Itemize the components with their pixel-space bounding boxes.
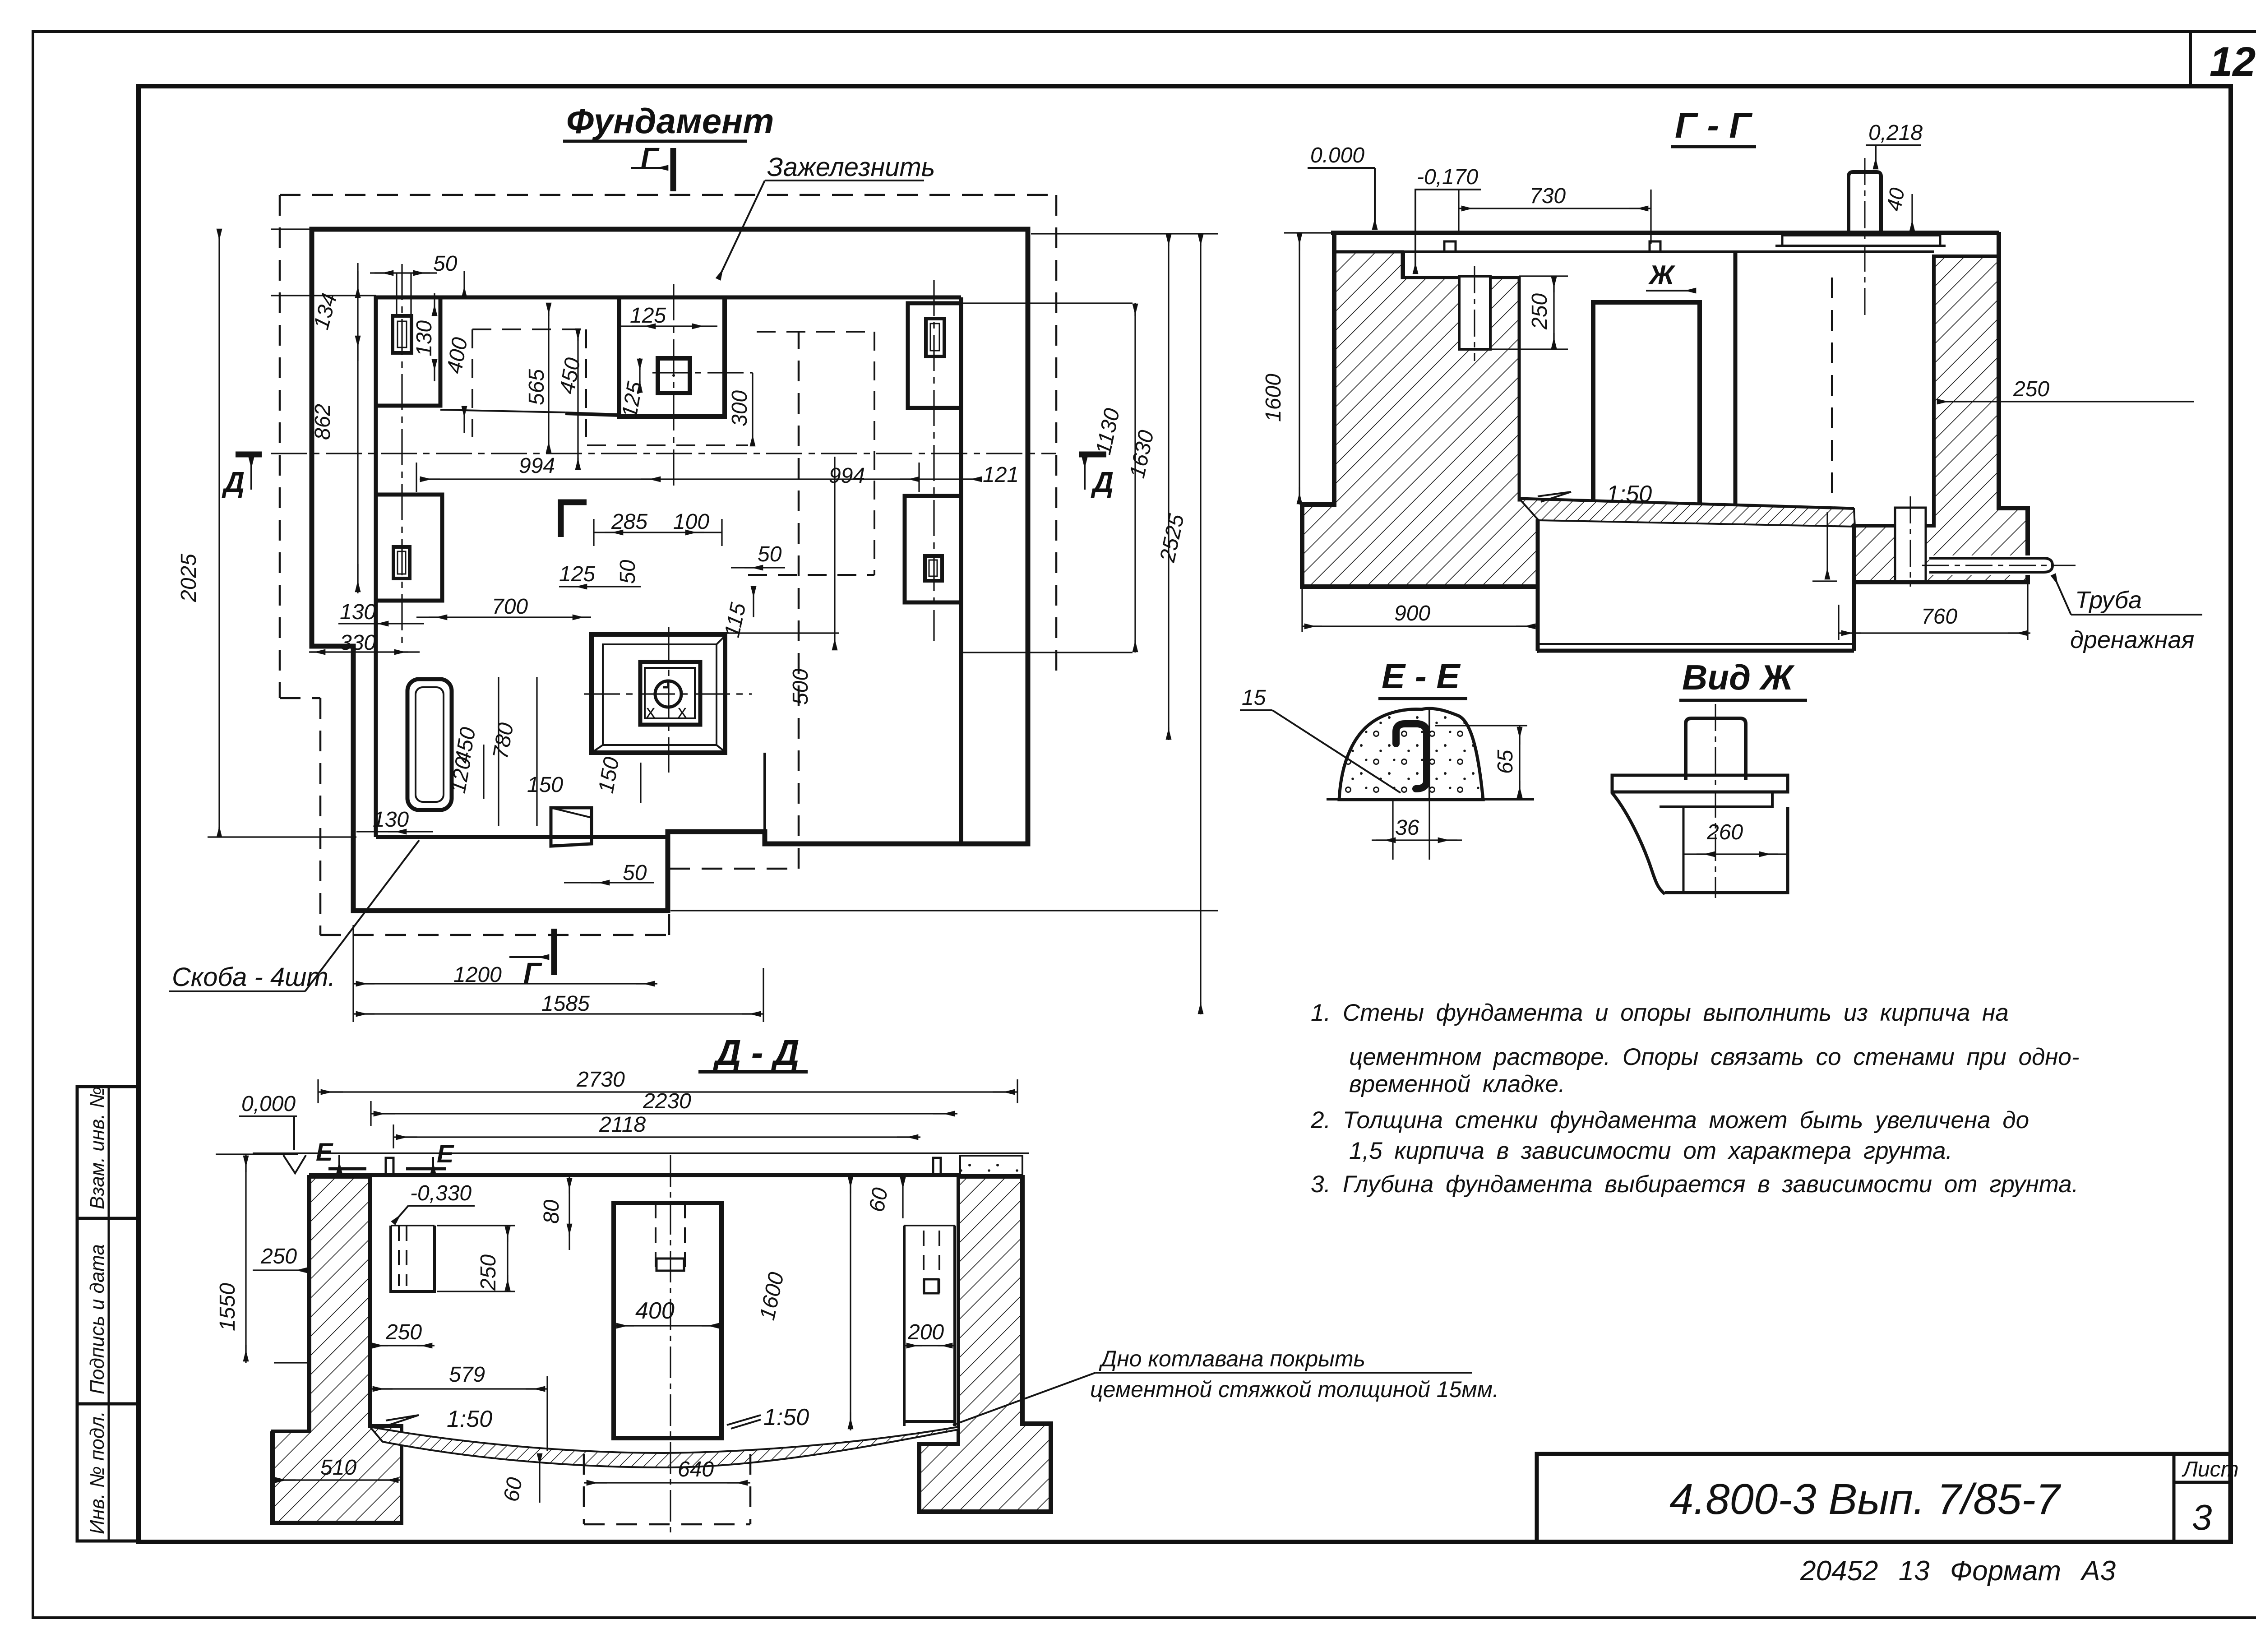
svg-text:-0,330: -0,330 xyxy=(410,1181,472,1205)
svg-text:x: x xyxy=(678,702,687,722)
svg-text:125: 125 xyxy=(559,562,595,586)
left margin stamp boxes xyxy=(77,1087,139,1541)
Д section marks xyxy=(222,454,1114,498)
svg-text:565: 565 xyxy=(525,369,549,405)
label Труба дренажная xyxy=(2070,587,2194,653)
pit floor curve with screed xyxy=(370,1427,958,1467)
slope mark xyxy=(1538,492,1571,502)
svg-text:579: 579 xyxy=(449,1363,485,1387)
svg-text:50: 50 xyxy=(616,560,640,584)
svg-text:125: 125 xyxy=(618,380,647,420)
label 1:50 xyxy=(1606,481,1652,507)
svg-text:250: 250 xyxy=(1528,293,1552,330)
dashed pit below xyxy=(584,1454,750,1524)
svg-text:121: 121 xyxy=(983,463,1019,487)
axis lines dash-dot xyxy=(271,264,1056,773)
svg-text:2118: 2118 xyxy=(599,1113,646,1137)
right wall hatched with footing xyxy=(919,1177,1051,1512)
svg-text:150: 150 xyxy=(594,755,624,795)
right side vertical dims xyxy=(670,234,1218,1014)
svg-text:700: 700 xyxy=(492,595,528,619)
ledge line -0.170 xyxy=(1402,252,1405,278)
svg-text:65: 65 xyxy=(1493,750,1517,774)
svg-text:400: 400 xyxy=(443,336,472,375)
left wall outer edge xyxy=(1302,232,1538,587)
chamber partition xyxy=(1734,252,1738,506)
svg-text:50: 50 xyxy=(433,252,458,276)
dim 250 right wall xyxy=(2013,377,2049,401)
left wall with footing hatched xyxy=(273,1177,402,1523)
Е cut marks xyxy=(316,1138,454,1168)
svg-text:500: 500 xyxy=(789,669,813,705)
dim 400 xyxy=(635,1298,675,1324)
dim 60 right xyxy=(865,1186,893,1214)
right wall and footing hatched xyxy=(1854,256,2028,582)
svg-text:900: 900 xyxy=(1394,602,1430,625)
dim 900 xyxy=(1394,602,1430,625)
svg-text:Е - Е: Е - Е xyxy=(1382,656,1461,696)
svg-text:-0,170: -0,170 xyxy=(1417,165,1478,189)
wall inner edges xyxy=(376,296,961,300)
pier top-middle xyxy=(619,297,725,416)
svg-text:4.800-3 Вып. 7/85-7: 4.800-3 Вып. 7/85-7 xyxy=(1669,1475,2062,1523)
left wall mass hatched xyxy=(1302,252,1538,587)
svg-text:125: 125 xyxy=(630,304,666,328)
anchor tabs on surface xyxy=(1444,241,1456,252)
section mark Г top xyxy=(641,142,660,174)
svg-text:Фундамент: Фундамент xyxy=(566,101,774,141)
svg-text:994: 994 xyxy=(519,454,555,478)
channel profile xyxy=(1396,724,1427,789)
svg-text:дренажная: дренажная xyxy=(2070,626,2194,653)
dim 1550 xyxy=(216,1283,240,1331)
svg-text:12: 12 xyxy=(2210,39,2256,85)
svg-text:Г: Г xyxy=(641,142,660,174)
svg-text:Труба: Труба xyxy=(2075,587,2142,614)
svg-text:1:50: 1:50 xyxy=(763,1404,809,1430)
trench edge below support xyxy=(763,753,766,832)
svg-text:36: 36 xyxy=(1395,816,1419,840)
label 15 xyxy=(1242,686,1266,710)
dim 730 xyxy=(1530,184,1566,208)
Г section mark bottom xyxy=(509,929,554,989)
niche bottom edge in top wall xyxy=(440,410,565,412)
dim 250 left leader xyxy=(260,1245,297,1268)
excavation pit dashed outline xyxy=(280,195,1056,935)
middle deep pit xyxy=(1536,519,1540,651)
svg-text:Г: Г xyxy=(523,957,542,989)
dim 200 xyxy=(907,1320,944,1344)
svg-text:1585: 1585 xyxy=(541,992,590,1016)
svg-text:3. Глубина фундамента выбир: 3. Глубина фундамента выбирается в завис… xyxy=(1311,1171,2079,1198)
svg-text:130: 130 xyxy=(412,320,436,356)
svg-text:Вид Ж: Вид Ж xyxy=(1682,657,1795,697)
label -0,170 xyxy=(1417,165,1478,189)
svg-text:300: 300 xyxy=(728,390,752,426)
misc dim lines center bottom xyxy=(353,457,835,1022)
svg-text:250: 250 xyxy=(2013,377,2049,401)
svg-text:2730: 2730 xyxy=(576,1068,625,1092)
dim 760 xyxy=(1921,605,1957,629)
svg-text:130: 130 xyxy=(373,808,409,832)
dim 250 pocket xyxy=(1528,293,1552,330)
svg-text:1550: 1550 xyxy=(216,1283,240,1331)
Г jog bracket mid xyxy=(561,502,587,537)
label -0,330 xyxy=(410,1181,472,1205)
base line xyxy=(1327,798,1534,801)
dim 80 xyxy=(540,1199,564,1224)
dim 250 vertical pocket xyxy=(476,1254,500,1291)
central pier Ж xyxy=(1593,302,1700,505)
plates xyxy=(1612,775,1788,792)
label Дно котлавана xyxy=(1090,1346,1499,1402)
sump depth arrow xyxy=(1826,512,1828,579)
svg-text:1130: 1130 xyxy=(1091,406,1124,457)
small step shoe lower-left of support xyxy=(551,808,592,846)
svg-text:260: 260 xyxy=(1706,820,1743,844)
svg-text:130: 130 xyxy=(340,600,376,624)
svg-text:Ж: Ж xyxy=(1648,260,1676,290)
svg-text:730: 730 xyxy=(1530,184,1566,208)
svg-text:862: 862 xyxy=(311,404,335,440)
скоба channel bracket xyxy=(407,679,452,810)
svg-text:0,000: 0,000 xyxy=(241,1092,296,1116)
svg-text:50: 50 xyxy=(623,861,647,885)
svg-text:1600: 1600 xyxy=(755,1270,789,1323)
title Д-Д xyxy=(712,1032,800,1073)
central support опора xyxy=(592,634,725,753)
svg-text:250: 250 xyxy=(260,1245,297,1268)
slot in right footing xyxy=(1895,508,1926,581)
svg-text:2. Толщина стенки фундамент: 2. Толщина стенки фундамента может быть … xyxy=(1310,1107,2029,1134)
label Скоба 4шт xyxy=(172,963,335,992)
dim 36 xyxy=(1395,816,1419,840)
svg-text:Подпись и дата: Подпись и дата xyxy=(86,1244,108,1394)
dim 640 xyxy=(678,1458,714,1481)
title Фундамент xyxy=(566,101,774,141)
svg-text:150: 150 xyxy=(527,773,563,797)
svg-text:100: 100 xyxy=(673,510,709,534)
svg-text:250: 250 xyxy=(476,1254,500,1291)
dim 40 xyxy=(1882,186,1909,213)
machine base plate xyxy=(1782,234,1940,236)
svg-text:3: 3 xyxy=(2192,1497,2212,1537)
svg-text:Скоба - 4шт.: Скоба - 4шт. xyxy=(172,963,335,992)
svg-text:Дно котлавана покрыть: Дно котлавана покрыть xyxy=(1099,1346,1365,1371)
svg-text:60: 60 xyxy=(499,1476,527,1504)
label 0.218 xyxy=(1868,121,1923,145)
dim 250 left horizontal xyxy=(385,1320,422,1344)
bolt xyxy=(1686,718,1746,780)
svg-text:1630: 1630 xyxy=(1125,428,1159,481)
svg-text:1,5 кирпича в зависимости: 1,5 кирпича в зависимости от характера г… xyxy=(1349,1138,1952,1164)
svg-text:1600: 1600 xyxy=(1262,374,1285,422)
svg-text:2525: 2525 xyxy=(1156,512,1189,565)
svg-text:Инв. № подл.: Инв. № подл. xyxy=(86,1411,108,1534)
svg-text:50: 50 xyxy=(758,542,782,566)
dimensions of plan xyxy=(208,229,982,837)
right pocket xyxy=(904,1226,955,1426)
svg-text:Д - Д: Д - Д xyxy=(712,1032,800,1073)
bolt circle of central support xyxy=(655,681,681,707)
bottom inner edge left part xyxy=(376,835,668,839)
anchor box of top-middle pier xyxy=(658,358,690,393)
1:50 labels xyxy=(447,1404,809,1432)
svg-text:цементном растворе. Опоры свя: цементном растворе. Опоры связать со сте… xyxy=(1349,1044,2080,1070)
svg-text:80: 80 xyxy=(540,1199,564,1224)
page number box 12 xyxy=(2189,32,2192,86)
svg-text:760: 760 xyxy=(1921,605,1957,629)
svg-text:20452 13 Формат А3: 20452 13 Формат А3 xyxy=(1800,1555,2116,1587)
anchor slot of right-top pilaster xyxy=(926,319,944,356)
svg-text:Е: Е xyxy=(316,1138,333,1166)
dim 1600 left xyxy=(1262,374,1285,422)
pilaster left-mid xyxy=(376,495,442,601)
elevation 0,000 xyxy=(241,1092,296,1116)
anchor slot of top-left pilaster xyxy=(393,316,411,353)
dim 1600 xyxy=(755,1270,789,1323)
label Зажелезнить xyxy=(767,153,935,182)
svg-text:Е: Е xyxy=(437,1139,454,1168)
dim 260 xyxy=(1706,820,1743,844)
svg-text:Зажелезнить: Зажелезнить xyxy=(767,153,935,182)
svg-text:1:50: 1:50 xyxy=(447,1406,492,1432)
hidden edge dashed xyxy=(1831,278,1833,504)
svg-text:780: 780 xyxy=(489,721,518,761)
svg-text:200: 200 xyxy=(907,1320,944,1344)
pier slot dashed xyxy=(655,1203,656,1271)
svg-text:640: 640 xyxy=(678,1458,714,1481)
svg-text:450: 450 xyxy=(555,356,585,396)
svg-text:цементной стяжкой толщиной: цементной стяжкой толщиной 15мм. xyxy=(1090,1377,1499,1402)
left pocket xyxy=(391,1226,435,1291)
svg-text:1. Стены фундамента и опоры: 1. Стены фундамента и опоры выполнить из… xyxy=(1311,1000,2009,1026)
svg-text:15: 15 xyxy=(1242,686,1266,710)
view mark Ж xyxy=(1648,260,1676,290)
right wall outer edge thick xyxy=(1854,232,2028,582)
cement stipple block top right xyxy=(960,1156,1022,1175)
screed band xyxy=(1520,499,1855,527)
anchor plates on top xyxy=(328,1167,366,1171)
floor line upper chamber xyxy=(1520,499,1854,509)
support body with torn edge xyxy=(1612,793,1788,894)
pilaster top-left xyxy=(376,297,440,406)
ground line xyxy=(253,1152,1029,1154)
svg-text:60: 60 xyxy=(865,1186,893,1214)
label 0.000 xyxy=(1310,143,1364,167)
svg-text:Лист: Лист xyxy=(2182,1458,2239,1481)
pilaster right-top xyxy=(908,303,961,408)
svg-text:1:50: 1:50 xyxy=(1606,481,1652,507)
svg-text:временной кладке.: временной кладке. xyxy=(1349,1071,1565,1097)
svg-text:285: 285 xyxy=(611,510,647,534)
pilaster right-bottom xyxy=(905,496,961,602)
svg-text:2025: 2025 xyxy=(177,554,201,602)
svg-text:250: 250 xyxy=(385,1320,422,1344)
anchor bolt xyxy=(1849,172,1881,232)
svg-text:400: 400 xyxy=(635,1298,675,1324)
svg-text:Д: Д xyxy=(222,466,245,498)
top surface xyxy=(1331,231,1999,235)
dim 65 xyxy=(1493,750,1517,774)
anchor slot of right-bottom pilaster xyxy=(925,556,942,581)
dim 2230 xyxy=(643,1089,691,1113)
title Вид Ж xyxy=(1682,657,1795,697)
dim 2118 xyxy=(599,1113,646,1137)
dim 60 bottom xyxy=(499,1476,527,1504)
dim 2730 xyxy=(576,1068,625,1092)
svg-text:510: 510 xyxy=(320,1456,356,1480)
dim 510 inside footing xyxy=(320,1456,356,1480)
svg-text:40: 40 xyxy=(1882,186,1909,213)
svg-text:x: x xyxy=(646,702,655,722)
title Г-Г xyxy=(1675,105,1753,145)
dim 579 xyxy=(449,1363,485,1387)
svg-text:Г - Г: Г - Г xyxy=(1675,105,1753,145)
svg-text:Д: Д xyxy=(1091,466,1114,498)
svg-text:Взам. инв. №: Взам. инв. № xyxy=(86,1087,108,1209)
foundation outer wall outline xyxy=(312,229,1028,911)
svg-text:0.000: 0.000 xyxy=(1310,143,1364,167)
svg-text:0,218: 0,218 xyxy=(1868,121,1923,145)
lower-left dims 130 330 700 xyxy=(309,617,591,832)
wall top xyxy=(309,1173,1022,1177)
anchor slot of left-mid pilaster xyxy=(393,547,410,578)
title Е-Е xyxy=(1382,656,1461,696)
drain pipe xyxy=(1929,555,2053,575)
svg-text:330: 330 xyxy=(340,631,376,655)
anchor pocket in left wall xyxy=(1459,276,1490,349)
svg-text:2230: 2230 xyxy=(643,1089,691,1113)
central pier xyxy=(614,1203,721,1438)
hidden inner pit dashed lines xyxy=(472,329,874,575)
concrete mound xyxy=(1339,708,1483,800)
